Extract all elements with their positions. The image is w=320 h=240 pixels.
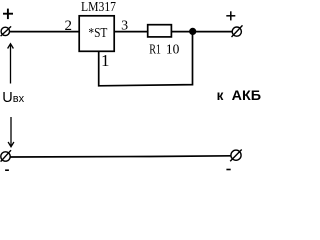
svg-text:*ST: *ST [88,26,107,41]
terminal X2 output plus [232,25,243,37]
regulator U1 LM317 body [79,16,114,52]
label - (input negative) [5,169,9,171]
svg-text:Uвх: Uвх [2,90,24,106]
wire R1 to output plus terminal [171,31,232,33]
terminal X4 output minus [230,150,242,162]
svg-text:1: 1 [101,51,110,70]
label + (input positive) [3,9,13,20]
terminal X1 input plus [1,26,12,36]
wire input plus to U1 pin 2 [10,31,80,33]
label - (output negative) [226,169,230,171]
svg-text:LM317: LM317 [81,0,116,15]
svg-text:2: 2 [65,18,73,34]
wire U1 pin 3 to R1 [114,31,147,33]
svg-text:АКБ: АКБ [232,88,262,103]
svg-text:10: 10 [166,43,180,58]
resistor R1 [148,25,172,37]
arrow Uvx pointing down [8,117,14,147]
junction node: ADJ to output [189,28,196,35]
wire ADJ loop: U1 pin 1 down, right, up to junction [99,32,193,86]
terminal X3 input minus [1,150,11,161]
wire bottom rail minus [10,156,231,157]
arrow Uvx pointing up [8,44,14,84]
label + (output positive) [226,11,235,20]
svg-text:R1: R1 [149,43,161,58]
svg-text:к: к [217,88,224,103]
